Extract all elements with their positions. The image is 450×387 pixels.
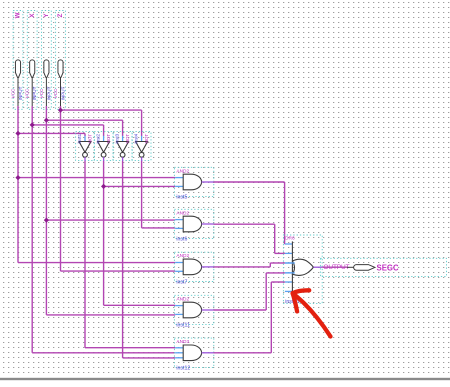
svg-text:NOT: NOT (125, 134, 130, 144)
wire X drop to NOT2 input (103, 125, 105, 136)
wire AND4 out vertical (265, 273, 267, 310)
wire Z vertical (60, 106, 62, 271)
wire W to NOT1 (18, 132, 85, 134)
svg-text:inst11: inst11 (176, 323, 190, 329)
wire AND3 out horizontal (213, 266, 270, 268)
output pin SEGC (320, 258, 446, 276)
junction X at NOT2 branch (30, 122, 35, 127)
wire AND5 out vertical (270, 282, 272, 353)
wire AND5 to OR in5 (271, 281, 285, 283)
and gate inst12 (AND3) (174, 338, 213, 371)
wire NOT2 out vertical (103, 161, 105, 305)
not gate inst1 (NOT) (76, 132, 95, 161)
wire Z drop to NOT4 input (141, 110, 143, 136)
svg-text:inst3: inst3 (114, 133, 119, 143)
input pin W (10, 11, 23, 110)
wire AND2 out horizontal (213, 223, 274, 225)
not gate inst2 (NOT) (94, 132, 113, 161)
and gate inst6 (AND2) (174, 209, 213, 242)
svg-text:inst7: inst7 (176, 280, 187, 286)
wire W drop to NOT1 input (84, 133, 86, 136)
svg-text:inst4: inst4 (133, 133, 138, 143)
svg-text:VCC: VCC (10, 88, 15, 98)
wire NOT1 out vertical (84, 161, 86, 348)
wire NOT2 to AND1 in2 (104, 185, 176, 187)
and gate inst11 (AND2) (174, 295, 213, 328)
svg-text:AND2: AND2 (176, 296, 189, 302)
svg-text:AND2: AND2 (176, 168, 189, 174)
wire Y to NOT3 (46, 119, 122, 121)
wire AND2 out vertical (274, 224, 276, 253)
not gate inst4 (NOT) (132, 132, 151, 161)
svg-text:Z: Z (57, 13, 64, 17)
svg-text:inst1: inst1 (77, 133, 82, 143)
wire AND1 out vertical (284, 182, 286, 244)
sheet bottom border (0, 378, 450, 380)
and gate inst5 (AND2) (174, 167, 213, 200)
svg-text:inst2: inst2 (95, 133, 100, 143)
svg-text:W: W (15, 12, 22, 18)
input pin Y (39, 11, 52, 110)
wire AND5 out horizontal (213, 352, 271, 354)
wire Y to AND4 in2 (46, 314, 175, 316)
wire W to AND3 in1 (18, 262, 175, 264)
svg-text:AND2: AND2 (176, 253, 189, 259)
svg-text:INPUT: INPUT (32, 86, 37, 100)
junction Y at NOT3 branch (44, 118, 49, 123)
junction W at NOT1 branch (15, 131, 20, 136)
svg-text:inst5: inst5 (176, 195, 187, 201)
svg-text:SEGC: SEGC (377, 263, 399, 272)
svg-text:NOT: NOT (144, 134, 149, 144)
svg-text:OR6: OR6 (285, 236, 295, 242)
and gate inst7 (AND2) (174, 252, 213, 285)
wire AND4 to OR in4 (266, 272, 285, 274)
wire Y drop to NOT3 input (122, 120, 124, 136)
wire NOT4 out vertical (141, 161, 143, 228)
svg-text:VCC: VCC (53, 88, 58, 98)
wire NOT2 to AND4 in1 (104, 304, 176, 306)
wire AND3 out jog vertical (269, 263, 271, 267)
wire X vertical (31, 106, 33, 353)
svg-text:VCC: VCC (25, 88, 30, 98)
svg-text:AND2: AND2 (176, 210, 189, 216)
wire X to NOT2 (32, 124, 103, 126)
not gate inst3 (NOT) (113, 132, 132, 161)
input pin X (25, 11, 37, 110)
svg-text:INPUT: INPUT (60, 86, 65, 100)
input pin Z (53, 11, 66, 110)
wire W vertical (17, 106, 19, 263)
svg-text:inst12: inst12 (176, 365, 190, 371)
svg-text:NOT: NOT (87, 134, 92, 144)
junction Y at AND2 branch (44, 218, 49, 223)
wire X to AND5 in2 (32, 352, 175, 354)
annotation red arrow (293, 290, 331, 336)
wire AND4 out horizontal (213, 309, 266, 311)
wire NOT4 to AND2 in2 (142, 227, 176, 229)
wire Y vertical (45, 106, 47, 315)
wire NOT3 out vertical (122, 161, 124, 358)
wire NOT3 to AND5 in3 (123, 357, 176, 359)
wire AND2 to OR in2 (275, 252, 285, 254)
wire Z to AND3 in2 (61, 270, 176, 272)
svg-text:INPUT: INPUT (46, 86, 51, 100)
wire Z to NOT4 (61, 109, 142, 111)
svg-text:NOT: NOT (106, 134, 111, 144)
svg-text:INPUT: INPUT (18, 86, 23, 100)
wire AND1 out horizontal (213, 181, 284, 183)
junction Z at NOT4 branch (58, 108, 63, 113)
junction W at AND1 branch (15, 175, 20, 180)
wire AND1 to OR in1 (284, 243, 286, 245)
junction NOT2 at AND1 branch (101, 184, 106, 189)
or gate inst13 (OR6) (283, 235, 322, 305)
svg-text:VCC: VCC (39, 88, 44, 98)
wire NOT1 to AND5 in1 (85, 347, 175, 349)
svg-text:inst6: inst6 (176, 237, 187, 243)
svg-text:AND3: AND3 (176, 339, 189, 345)
wire Y to AND2 in1 (46, 219, 175, 221)
wire AND3 to OR in3 (270, 262, 285, 264)
wire W to AND1 in1 (18, 177, 175, 179)
